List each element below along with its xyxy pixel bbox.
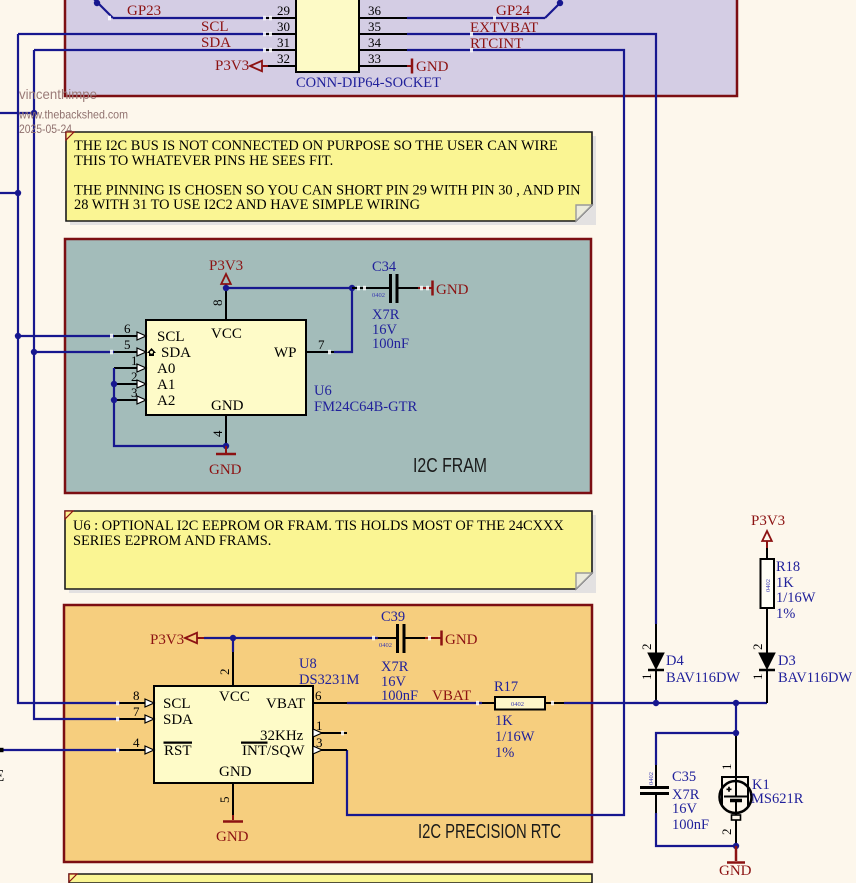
svg-text:2: 2	[719, 829, 734, 836]
wire stub from left edge into B	[0, 112, 34, 114]
note box 2	[65, 511, 592, 589]
annotation text date	[19, 122, 72, 136]
svg-text:U6: U6	[314, 383, 332, 399]
svg-text:SCL: SCL	[201, 19, 229, 35]
section title I2C FRAM	[413, 455, 487, 477]
C34 footprint label 0402	[372, 292, 385, 299]
svg-text:0402: 0402	[765, 579, 772, 592]
group box (teal) I2C FRAM	[65, 239, 591, 493]
svg-text:P3V3: P3V3	[215, 58, 249, 74]
svg-text:33: 33	[368, 51, 381, 66]
svg-text:35: 35	[368, 19, 381, 34]
wire bus-left vertical B (SDA net)	[34, 50, 120, 719]
svg-text:3: 3	[131, 385, 138, 400]
U6 pin names	[157, 326, 297, 414]
svg-text:U8: U8	[299, 656, 317, 672]
node junction A at y336	[15, 333, 21, 339]
svg-text:16V: 16V	[672, 801, 698, 817]
svg-text:R17: R17	[494, 679, 518, 695]
svg-text:7: 7	[318, 337, 325, 352]
wire GP24 from pin 36	[407, 0, 560, 18]
U6 pin 5 SDA	[114, 337, 146, 356]
svg-text:GP23: GP23	[127, 3, 161, 19]
connector CONN-DIP64-SOCKET body	[296, 0, 359, 72]
pin 36	[359, 3, 407, 18]
svg-text:1K: 1K	[495, 713, 513, 729]
capacitor C35	[640, 765, 669, 813]
hierarchical label arrow at left edge	[0, 748, 4, 752]
svg-text:2025-05-24: 2025-05-24	[19, 122, 72, 136]
pin 33	[359, 51, 407, 66]
U8 pin 2 VCC top	[217, 652, 233, 686]
U6 reference labels	[314, 383, 417, 415]
wire RST from left edge	[0, 749, 120, 751]
power symbol GND at pin 33	[407, 59, 449, 76]
svg-text:1/16W: 1/16W	[495, 729, 535, 745]
wire WP to VCC node	[334, 288, 352, 352]
svg-text:4: 4	[210, 430, 225, 437]
connection end markers (pale)	[108, 16, 554, 753]
svg-text:vincenthimpe: vincenthimpe	[19, 86, 97, 102]
svg-text:X7R: X7R	[381, 659, 409, 675]
svg-text:1%: 1%	[776, 606, 795, 622]
diode D4 BAV116DW	[639, 624, 664, 703]
node junction battery top	[733, 730, 739, 736]
svg-text:P3V3: P3V3	[751, 513, 785, 529]
wire R17 to VBAT rail	[564, 702, 767, 704]
svg-text:5: 5	[217, 797, 232, 804]
U6 pin 6 SCL	[114, 321, 146, 340]
power symbol P3V3 at pin 32	[215, 58, 268, 74]
svg-text:CONN-DIP64-SOCKET: CONN-DIP64-SOCKET	[296, 75, 441, 91]
svg-text:7: 7	[133, 704, 140, 719]
capacitor C39	[378, 624, 425, 653]
net label EXTVBAT	[470, 20, 538, 36]
svg-text:I2C FRAM: I2C FRAM	[413, 455, 487, 477]
resistor R17	[482, 697, 564, 710]
U6 SDA bidirectional marker	[147, 348, 156, 356]
U6 pin 1 A0	[114, 353, 146, 372]
svg-text:GND: GND	[436, 282, 469, 298]
note box 1	[66, 132, 592, 221]
svg-text:VBAT: VBAT	[266, 696, 305, 712]
note box 2 shadow	[69, 515, 596, 593]
svg-text:0402: 0402	[648, 772, 655, 785]
svg-text:34: 34	[368, 35, 382, 50]
svg-text:MS621R: MS621R	[751, 791, 804, 807]
wire RTCINT from pin 34 down right side	[347, 50, 624, 815]
svg-text:www.thebackshed.com: www.thebackshed.com	[18, 108, 128, 122]
svg-text:2: 2	[750, 644, 765, 651]
U6 pin 3 A2	[114, 385, 146, 404]
svg-text:BAV116DW: BAV116DW	[666, 670, 740, 686]
svg-text:0402: 0402	[511, 701, 524, 708]
svg-text:C39: C39	[381, 609, 405, 625]
svg-text:2: 2	[217, 669, 232, 676]
section title I2C PRECISION RTC	[418, 821, 561, 843]
annotation text vincenthimpe	[19, 86, 97, 102]
capacitor C34	[352, 274, 418, 303]
node junction at C34	[349, 285, 355, 291]
R17 value labels	[494, 679, 535, 761]
svg-text:GND: GND	[216, 829, 249, 845]
svg-text:VCC: VCC	[219, 689, 250, 705]
svg-text:GND: GND	[416, 59, 449, 75]
U8 pin 7 SDA	[120, 704, 154, 723]
wire C35 bottom to battery bottom	[656, 813, 736, 846]
svg-text:X7R: X7R	[372, 307, 400, 323]
connector reference label CONN-DIP64-SOCKET	[296, 75, 441, 91]
wire P3V3 to C39	[204, 637, 378, 639]
wire SCL to pin 30	[18, 33, 266, 35]
node junction A2	[111, 397, 117, 403]
svg-text:SDA: SDA	[201, 35, 231, 51]
diode D3 BAV116DW	[750, 628, 775, 703]
group box (orange) I2C PRECISION RTC	[64, 605, 592, 862]
node junction A at y193	[15, 190, 21, 196]
wire EXTVBAT from pin 35 to right vertical	[407, 34, 656, 624]
svg-text:VCC: VCC	[211, 326, 242, 342]
svg-text:GND: GND	[211, 398, 244, 414]
svg-text:FM24C64B-GTR: FM24C64B-GTR	[314, 399, 417, 415]
svg-text:1K: 1K	[776, 575, 794, 591]
svg-text:C35: C35	[672, 769, 696, 785]
svg-text:EXTVBAT: EXTVBAT	[470, 20, 538, 36]
svg-text:8: 8	[133, 688, 140, 703]
K1 labels	[751, 777, 804, 807]
svg-text:1: 1	[316, 718, 323, 733]
node junction VBAT rail to battery branch	[733, 700, 739, 706]
pin 35	[359, 19, 407, 34]
power symbol GND at C34	[418, 281, 469, 299]
note box 1 shadow	[70, 136, 596, 225]
pin 30	[266, 19, 296, 34]
svg-text:RST: RST	[164, 743, 192, 759]
node junction U6 VCC	[223, 285, 229, 291]
C34 value labels	[372, 259, 409, 352]
svg-text:BAV116DW: BAV116DW	[778, 670, 852, 686]
U8 pin 5 GND bottom	[217, 783, 233, 815]
svg-text:1: 1	[719, 764, 734, 771]
U8 reference labels	[299, 656, 360, 688]
ground symbol below U6	[209, 446, 242, 478]
pin 29	[266, 3, 296, 18]
svg-text:GND: GND	[209, 462, 242, 478]
battery K1 MS621R	[719, 736, 752, 846]
pin 31	[266, 35, 296, 50]
C35 footprint label 0402	[648, 772, 655, 785]
svg-text:0402: 0402	[379, 642, 392, 649]
svg-text:100nF: 100nF	[672, 817, 709, 833]
node junction B at y352	[31, 349, 37, 355]
svg-text:INT/SQW: INT/SQW	[242, 743, 305, 759]
svg-text:SDA: SDA	[163, 712, 193, 728]
group box (lavender) around DIP64 socket	[65, 0, 737, 96]
svg-text:THE PINNING IS CHOSEN SO YOU C: THE PINNING IS CHOSEN SO YOU CAN SHORT P…	[74, 182, 581, 198]
U6 pin 8 VCC top	[210, 288, 226, 320]
node junction at top of GP23 diagonal	[94, 0, 100, 6]
C39 footprint label 0402	[379, 642, 392, 649]
svg-text:D4: D4	[666, 653, 684, 669]
wire SDA to pin 31	[34, 49, 266, 51]
node junction A1	[111, 381, 117, 387]
wire VCC node to pin 2	[232, 638, 234, 652]
hierarchical label text fragment E	[0, 766, 4, 785]
svg-text:THE I2C BUS IS NOT CONNECTED O: THE I2C BUS IS NOT CONNECTED ON PURPOSE …	[74, 138, 558, 154]
svg-text:GND: GND	[719, 863, 752, 879]
U6 pin 2 A1	[114, 369, 146, 388]
svg-text:E: E	[0, 766, 4, 785]
svg-text:29: 29	[277, 3, 290, 18]
svg-text:5: 5	[124, 337, 131, 352]
resistor R18	[761, 548, 775, 628]
svg-text:0402: 0402	[372, 292, 385, 299]
pin 32	[266, 51, 296, 66]
svg-text:DS3231M: DS3231M	[299, 672, 360, 688]
net label SCL	[201, 19, 229, 35]
svg-text:6: 6	[315, 688, 322, 703]
note box 3 (bottom, clipped)	[69, 874, 592, 883]
svg-text:1/16W: 1/16W	[776, 590, 816, 606]
C39 value labels	[381, 609, 418, 704]
svg-text:VBAT: VBAT	[432, 688, 471, 704]
svg-text:P3V3: P3V3	[150, 632, 184, 648]
annotation text www.thebackshed.com	[18, 108, 128, 122]
svg-text:2: 2	[131, 369, 138, 384]
wire B to U6 pin 5	[34, 351, 114, 353]
svg-text:SERIES E2PROM AND FRAMS.: SERIES E2PROM AND FRAMS.	[73, 533, 271, 549]
svg-text:1: 1	[750, 674, 765, 681]
power symbol P3V3 above R18	[751, 513, 785, 548]
node junction U8 VCC	[230, 635, 236, 641]
svg-text:100nF: 100nF	[372, 336, 409, 352]
wire U8 VBAT to R17	[347, 702, 482, 704]
U8 pin names	[163, 689, 305, 780]
net label VBAT	[432, 688, 471, 704]
net label SDA	[201, 35, 231, 51]
node junction U6 GND	[223, 443, 229, 449]
wire stub from left edge into A	[0, 192, 18, 194]
node junction GP24 top	[557, 0, 563, 6]
svg-text:1: 1	[131, 353, 138, 368]
wire U6 VCC to C34	[226, 287, 352, 289]
U8 pin 4 RST	[120, 735, 154, 754]
U8 pin 8 SCL	[120, 688, 154, 707]
node junction battery bottom	[733, 843, 739, 849]
IC U8 DS3231M body	[154, 686, 313, 783]
svg-text:GND: GND	[219, 764, 252, 780]
U6 pin 4 GND bottom	[210, 415, 226, 446]
svg-text:I2C PRECISION RTC: I2C PRECISION RTC	[418, 821, 561, 843]
svg-text:RTCINT: RTCINT	[470, 36, 523, 52]
svg-text:A1: A1	[157, 377, 175, 393]
node junction D4 at VBAT rail	[653, 700, 659, 706]
svg-text:A2: A2	[157, 393, 175, 409]
svg-text:4: 4	[133, 735, 140, 750]
svg-text:36: 36	[368, 3, 382, 18]
U8 pin 6 VBAT	[313, 688, 347, 703]
svg-text:U6 : OPTIONAL I2C EEPROM OR FR: U6 : OPTIONAL I2C EEPROM OR FRAM. TIS HO…	[73, 518, 564, 534]
wire U6 A0/A1/A2 loop to GND	[114, 368, 226, 446]
power symbol P3V3 above U6	[209, 258, 243, 288]
svg-text:31: 31	[277, 35, 290, 50]
svg-text:6: 6	[124, 321, 131, 336]
svg-text:30: 30	[277, 19, 290, 34]
svg-text:2: 2	[639, 644, 654, 651]
R17 footprint label 0402	[511, 701, 524, 708]
svg-text:8: 8	[210, 300, 225, 307]
R18 value labels	[776, 559, 816, 622]
ground symbol below K1	[719, 846, 752, 879]
R18 footprint label 0402	[765, 579, 772, 592]
svg-text:1: 1	[639, 674, 654, 681]
U6 pin 7 WP	[306, 337, 334, 352]
op-amp U6 FM24C64B-GTR body	[146, 320, 306, 415]
U8 pin 1 32KHz stub	[313, 718, 347, 737]
svg-text:SCL: SCL	[163, 696, 191, 712]
D4 labels	[666, 653, 740, 686]
svg-text:3: 3	[316, 735, 323, 750]
node junction B at y113	[31, 110, 37, 116]
U8 pin 3 INT/SQW	[313, 735, 347, 754]
svg-text:D3: D3	[778, 653, 796, 669]
wire A to U6 pin 6	[18, 335, 114, 337]
wire GP23 diagonal	[92, 0, 113, 18]
svg-text:P3V3: P3V3	[209, 258, 243, 274]
power symbol P3V3 at U8	[150, 632, 204, 648]
D3 labels	[778, 653, 852, 686]
pin 34	[359, 35, 407, 50]
ground symbol below U8	[216, 815, 249, 845]
svg-text:SDA: SDA	[161, 345, 191, 361]
svg-text:SCL: SCL	[157, 329, 185, 345]
power symbol GND at C39	[425, 631, 478, 649]
svg-text:1%: 1%	[495, 745, 514, 761]
svg-text:A0: A0	[157, 361, 175, 377]
net label GP24	[496, 3, 531, 19]
svg-text:THIS TO WHATEVER PINS HE SEES: THIS TO WHATEVER PINS HE SEES FIT.	[74, 153, 333, 169]
net label GP23	[127, 3, 161, 19]
wire GP23 to pin 29	[113, 17, 266, 19]
svg-text:GND: GND	[445, 632, 478, 648]
svg-text:32: 32	[277, 51, 290, 66]
svg-text:GP24: GP24	[496, 3, 531, 19]
wire to C35 top	[656, 733, 736, 765]
wire battery branch vertical	[735, 703, 737, 733]
svg-text:C34: C34	[372, 259, 397, 275]
C35 value labels	[672, 769, 709, 833]
svg-text:100nF: 100nF	[381, 688, 418, 704]
svg-text:R18: R18	[776, 559, 800, 575]
svg-text:28 WITH 31 TO USE I2C2 AND HAV: 28 WITH 31 TO USE I2C2 AND HAVE SIMPLE W…	[74, 197, 420, 213]
svg-text:WP: WP	[274, 345, 297, 361]
wire bus-left vertical A (SCL net)	[18, 34, 120, 703]
net label RTCINT	[470, 36, 523, 52]
